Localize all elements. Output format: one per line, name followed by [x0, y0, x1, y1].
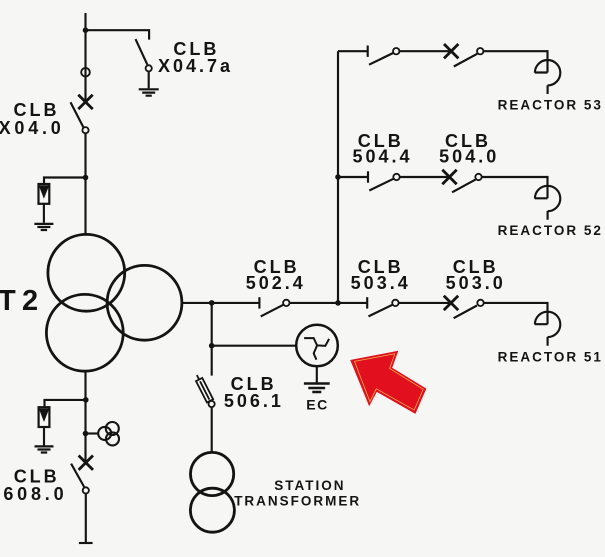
- reactor 53 coil: [535, 60, 561, 94]
- svg-text:504.0: 504.0: [439, 146, 499, 166]
- disconnector CLB 503.4 blade: [369, 305, 393, 317]
- wire row2 to reactor 52: [482, 177, 548, 198]
- wire row1 left: [338, 50, 368, 52]
- label STATION TRANSFORMER: [234, 478, 361, 508]
- disconnector CLB X04.0 blade: [71, 102, 84, 128]
- disconnector CLB 504.4 pivot circle: [393, 174, 399, 180]
- label CLB X04.7a: [158, 39, 233, 76]
- breaker X mark CLB 608.0: [79, 456, 93, 470]
- wire station branch to fuse: [211, 346, 213, 376]
- label EC: [306, 397, 328, 413]
- ground symbol EC: [304, 384, 330, 393]
- svg-text:TRANSFORMER: TRANSFORMER: [234, 493, 361, 508]
- svg-text:608.0: 608.0: [3, 484, 67, 504]
- breaker X mark CLB 504.0: [442, 170, 456, 184]
- wire EC branch horizontal: [212, 345, 297, 347]
- wire CT stub: [86, 432, 99, 434]
- wire row1 mid: [399, 50, 451, 52]
- reactor 51 coil: [535, 312, 561, 346]
- ground symbol arrester bottom: [35, 446, 54, 452]
- disconnector CLB 608.0 pivot circle: [83, 487, 89, 493]
- node junction arrester tap bottom: [83, 397, 89, 403]
- breaker CLB 503.0 blade: [454, 306, 477, 319]
- wire feeder below transformer: [84, 371, 86, 463]
- wire fuse to station transformer: [211, 407, 213, 452]
- earth switch CLB X04.7a blade: [136, 39, 148, 65]
- breaker CLB 504.0 pivot circle: [475, 174, 481, 180]
- svg-text:X04.7a: X04.7a: [158, 56, 233, 76]
- disconnector CLB 502.4 tick: [258, 297, 260, 308]
- svg-text:504.4: 504.4: [352, 146, 412, 166]
- label REACTOR 52: [498, 223, 603, 238]
- wire row1 to reactor 53: [483, 51, 547, 72]
- disconnector CLB 502.4 pivot circle: [283, 300, 289, 306]
- svg-text:T2: T2: [0, 285, 44, 317]
- red callout arrow pointing at EC: [352, 352, 426, 412]
- node junction bus bottom: [335, 300, 341, 306]
- wire main row3 horizontal: [182, 302, 260, 304]
- disconnector CLB 503.4 tick: [366, 297, 368, 308]
- current transformer cluster: [98, 422, 119, 445]
- wire arrester branch top: [44, 178, 86, 185]
- svg-text:STATION: STATION: [274, 478, 345, 493]
- disconnector CLB 503.4 pivot circle: [392, 300, 398, 306]
- earthing coil EC circle: [296, 325, 338, 367]
- node junction EC tap: [209, 343, 215, 349]
- label CLB 608.0: [3, 467, 67, 505]
- breaker X mark CLB X04.0: [78, 95, 92, 109]
- node junction arrester tap: [83, 175, 89, 181]
- reactor 52 coil: [535, 186, 561, 220]
- wire bus vertical: [337, 51, 339, 303]
- label CLB 503.0: [446, 257, 506, 293]
- wire arrester branch bottom: [45, 400, 86, 407]
- label REACTOR 53: [498, 97, 603, 112]
- ground symbol top: [139, 89, 159, 95]
- wire main feeder vertical top: [84, 13, 86, 102]
- surge arrester F1 arrow: [40, 186, 48, 197]
- wire arrester bottom to ground: [43, 427, 45, 446]
- earth switch CLB X04.7a pivot circle: [146, 65, 152, 71]
- breaker row1 blade: [454, 54, 477, 67]
- disconnector CLB X04.0 pivot circle: [82, 127, 88, 133]
- disconnector CLB 504.4 tick: [367, 171, 369, 182]
- label CLB 503.4: [351, 257, 411, 293]
- wire feeder middle: [84, 133, 86, 234]
- svg-text:503.0: 503.0: [446, 273, 506, 293]
- earthing coil EC zigzag winding: [304, 338, 329, 360]
- label CLB 506.1: [224, 374, 284, 411]
- fuse switch CLB 506.1: [194, 373, 215, 407]
- node junction top-left: [83, 27, 89, 33]
- disconnector row1 blade: [369, 53, 393, 65]
- transformer T2 winding 3: [46, 294, 123, 371]
- surge arrester F2 arrow: [40, 409, 48, 420]
- label CLB 504.4: [352, 131, 412, 167]
- svg-text:REACTOR 52: REACTOR 52: [498, 223, 603, 238]
- wire row3 to reactor 51: [484, 303, 548, 324]
- breaker CLB 504.0 blade: [452, 180, 475, 193]
- wire row2 left: [338, 176, 368, 178]
- wire EC to ground: [316, 366, 318, 383]
- node junction bus row2: [335, 174, 341, 180]
- label CLB 502.4: [246, 257, 306, 293]
- wire earth switch to ground: [148, 71, 150, 88]
- wire row2 mid: [400, 176, 450, 178]
- breaker X mark row1: [444, 44, 458, 58]
- station transformer winding 1: [191, 452, 234, 495]
- wire station branch vertical: [211, 303, 213, 346]
- breaker CLB 503.0 pivot circle: [477, 300, 483, 306]
- disconnector row1 tick: [367, 46, 369, 57]
- cable terminator bar: [79, 542, 93, 544]
- breaker X mark CLB 503.0: [444, 296, 458, 310]
- node junction CT tap: [83, 431, 89, 437]
- label CLB 504.0: [439, 131, 499, 167]
- svg-text:506.1: 506.1: [224, 391, 284, 411]
- wire row3 right of 503.4: [399, 302, 451, 304]
- bushing circle on feeder: [81, 68, 90, 77]
- disconnector row1 pivot circle: [393, 48, 399, 54]
- disconnector CLB 504.4 blade: [369, 179, 393, 191]
- disconnector CLB 608.0 blade: [71, 464, 84, 487]
- transformer T2 winding 1: [48, 234, 125, 311]
- wire to cable end: [85, 494, 87, 544]
- transformer T2 winding 2: [107, 265, 182, 340]
- svg-text:X04.0: X04.0: [0, 118, 65, 138]
- svg-text:REACTOR 53: REACTOR 53: [498, 97, 603, 112]
- label CLB X04.0: [0, 100, 65, 138]
- station transformer winding 2: [190, 488, 234, 532]
- label T2: [0, 285, 44, 317]
- wire row3 mid: [290, 302, 368, 304]
- wire top earth-switch branch: [86, 30, 150, 39]
- surge arrester F2 body: [39, 407, 50, 427]
- svg-text:EC: EC: [306, 397, 328, 413]
- disconnector CLB 502.4 blade: [261, 305, 284, 317]
- label REACTOR 51: [498, 350, 603, 365]
- node junction station branch: [209, 300, 215, 306]
- breaker row1 pivot circle: [477, 48, 483, 54]
- svg-text:502.4: 502.4: [246, 273, 306, 293]
- wire arrester to ground top: [43, 204, 45, 223]
- surge arrester F1 body: [39, 184, 50, 204]
- svg-text:REACTOR 51: REACTOR 51: [498, 350, 603, 365]
- ground symbol arrester top: [34, 224, 53, 230]
- svg-text:503.4: 503.4: [351, 273, 411, 293]
